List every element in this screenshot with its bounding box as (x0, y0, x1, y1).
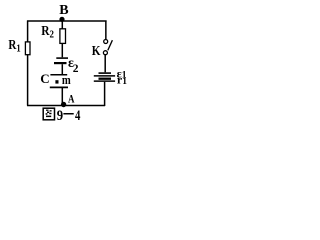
svg-text:K: K (92, 43, 101, 58)
svg-text:R1: R1 (8, 37, 20, 55)
svg-text:m: m (62, 72, 71, 87)
svg-text:B: B (59, 3, 68, 18)
svg-text:9: 9 (57, 108, 63, 121)
svg-text:4: 4 (75, 106, 81, 121)
svg-text:A: A (68, 94, 75, 106)
svg-text:C: C (40, 71, 49, 86)
svg-text:2: 2 (73, 63, 79, 75)
svg-text:R2: R2 (41, 23, 54, 40)
